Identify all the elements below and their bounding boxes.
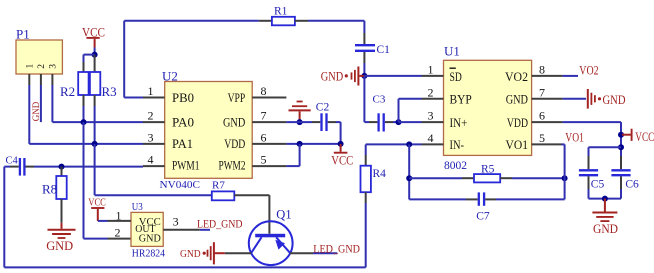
svg-text:C5: C5 xyxy=(591,179,605,191)
svg-text:GND: GND xyxy=(321,70,343,84)
svg-text:U1: U1 xyxy=(444,44,460,59)
svg-text:R3: R3 xyxy=(102,84,117,99)
svg-text:P1: P1 xyxy=(16,27,30,42)
svg-text:C6: C6 xyxy=(625,179,639,191)
svg-text:GND: GND xyxy=(506,93,528,107)
svg-text:VCC: VCC xyxy=(331,153,353,167)
svg-text:LED_GND: LED_GND xyxy=(197,216,243,230)
svg-text:U2: U2 xyxy=(162,69,178,84)
svg-text:2: 2 xyxy=(148,109,154,123)
svg-text:GND: GND xyxy=(32,102,42,122)
svg-text:1: 1 xyxy=(116,209,122,223)
svg-text:8002: 8002 xyxy=(444,160,467,172)
svg-text:C1: C1 xyxy=(377,44,391,56)
svg-text:C7: C7 xyxy=(476,210,490,222)
svg-text:5: 5 xyxy=(261,153,267,167)
svg-text:3: 3 xyxy=(428,109,434,123)
svg-text:GND: GND xyxy=(593,222,618,236)
svg-text:1: 1 xyxy=(148,84,154,98)
svg-text:BYP: BYP xyxy=(450,93,472,107)
svg-text:VCC: VCC xyxy=(635,130,654,144)
svg-text:VO1: VO1 xyxy=(565,130,584,144)
svg-text:PWM1: PWM1 xyxy=(172,159,200,173)
svg-text:GND: GND xyxy=(46,238,73,253)
svg-text:2: 2 xyxy=(428,85,434,99)
svg-text:PA1: PA1 xyxy=(172,137,193,151)
svg-text:6: 6 xyxy=(539,109,545,123)
svg-text:2: 2 xyxy=(37,64,47,69)
svg-text:IN-: IN- xyxy=(450,138,465,152)
svg-text:GND: GND xyxy=(603,93,626,107)
svg-text:PWM2: PWM2 xyxy=(219,159,246,173)
svg-text:VO1: VO1 xyxy=(506,138,529,152)
svg-text:3: 3 xyxy=(49,64,59,69)
svg-text:4: 4 xyxy=(428,131,434,145)
svg-text:6: 6 xyxy=(261,130,267,144)
svg-text:3: 3 xyxy=(148,130,154,144)
svg-text:R5: R5 xyxy=(481,163,495,175)
svg-text:8: 8 xyxy=(261,84,267,98)
svg-text:VCC: VCC xyxy=(88,197,106,209)
svg-text:R7: R7 xyxy=(212,180,225,192)
svg-text:5: 5 xyxy=(539,131,545,145)
svg-text:VDD: VDD xyxy=(224,137,245,151)
svg-text:7: 7 xyxy=(539,85,545,99)
svg-text:HR2824: HR2824 xyxy=(132,248,166,260)
svg-text:LED_GND: LED_GND xyxy=(313,241,360,255)
svg-text:1: 1 xyxy=(428,62,434,76)
svg-text:SD: SD xyxy=(450,70,462,84)
svg-text:VDD: VDD xyxy=(507,116,528,130)
svg-text:GND: GND xyxy=(223,115,245,129)
svg-text:C4: C4 xyxy=(6,156,19,167)
svg-text:VO2: VO2 xyxy=(579,64,598,78)
svg-text:GND: GND xyxy=(180,248,201,260)
svg-text:R4: R4 xyxy=(373,168,387,180)
svg-text:PA0: PA0 xyxy=(172,115,194,129)
svg-text:Q1: Q1 xyxy=(276,208,291,222)
svg-text:4: 4 xyxy=(148,153,154,167)
svg-text:IN+: IN+ xyxy=(450,116,468,130)
svg-text:U3: U3 xyxy=(132,202,143,213)
svg-text:R8: R8 xyxy=(42,182,57,197)
svg-text:8: 8 xyxy=(539,62,545,76)
svg-text:C3: C3 xyxy=(373,94,386,106)
svg-text:R1: R1 xyxy=(274,5,288,17)
svg-text:C2: C2 xyxy=(316,101,330,113)
svg-text:1: 1 xyxy=(25,64,35,69)
svg-text:VPP: VPP xyxy=(228,91,246,105)
svg-text:VO2: VO2 xyxy=(505,70,528,84)
svg-text:NV040C: NV040C xyxy=(160,180,201,191)
svg-text:R2: R2 xyxy=(60,84,75,99)
svg-text:7: 7 xyxy=(261,109,267,123)
svg-text:2: 2 xyxy=(115,226,121,240)
svg-text:PB0: PB0 xyxy=(172,91,194,105)
svg-text:3: 3 xyxy=(173,215,179,229)
svg-text:GND: GND xyxy=(139,234,162,245)
